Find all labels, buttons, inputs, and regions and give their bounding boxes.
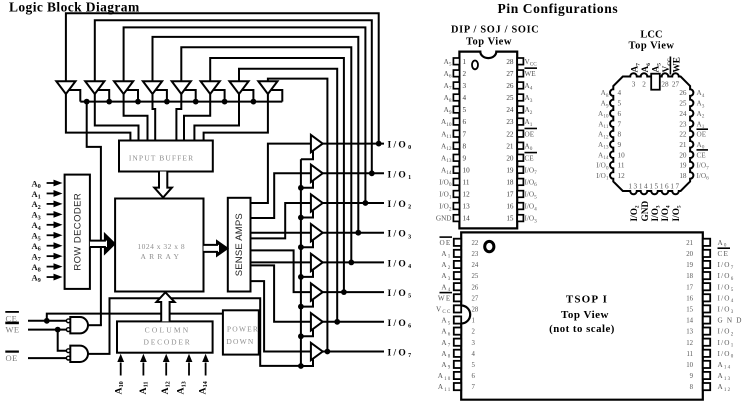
inverter bubble G1 input b [66,328,70,332]
wire sense amp out 5 to output buffer [251,250,311,292]
arrow COLUMN DECODER to ARRAY [156,292,174,321]
wire enable tap output buffer 8 [301,359,313,366]
node junction I/O1 feedback tap [369,170,375,176]
wire address input A10 column [120,363,122,376]
wire G1 output [88,324,102,326]
svg-text:1: 1 [472,318,475,325]
node junction output enable bus 7 [298,333,304,339]
svg-text:8: 8 [690,384,694,391]
wire enable tap output buffer 5 [301,270,313,277]
wire data D4 from buffer U5 into INPUT BUFFER [176,94,181,142]
wire enable tap of buffer U7 [242,90,254,102]
svg-text:12: 12 [686,340,693,347]
svg-text:21: 21 [506,142,514,150]
svg-text:24: 24 [679,110,687,118]
wire sense amp out 0 to output buffer [251,144,311,203]
wire WE enable from gate G1 to input-buffer bus [87,102,101,326]
node junction I/O6 feedback tap [334,319,340,325]
svg-text:15: 15 [686,307,693,314]
wire enable tap of buffer U2 [97,90,109,102]
arrowhead A2 [54,201,63,208]
pin 18 DIP [517,179,523,186]
svg-text:22: 22 [679,131,687,139]
svg-text:OE: OE [6,353,18,363]
svg-text:DOWN: DOWN [226,337,254,346]
wire I/O4 output line [323,261,384,263]
svg-text:11: 11 [618,162,625,170]
svg-text:15: 15 [649,183,659,191]
node junction enable bus / buffer U4 [164,99,170,105]
svg-text:WE: WE [525,70,537,78]
svg-text:INPUT BUFFER: INPUT BUFFER [129,154,194,163]
node junction output enable bus 4 [298,244,304,250]
svg-text:LCC: LCC [640,30,662,41]
package TSOP body with pin1 notch [461,232,703,399]
arrow ARRAY to SENSE AMPS [204,241,228,255]
svg-text:23: 23 [679,120,687,128]
svg-text:4: 4 [472,351,476,358]
pin 15 DIP [517,215,523,222]
pin 11 DIP [453,179,459,186]
svg-text:4: 4 [618,89,622,97]
svg-text:23: 23 [506,118,514,126]
output buffer Q8 (triangle) [311,343,323,360]
inverter bubble G1 input a [66,319,70,323]
svg-text:14: 14 [463,215,471,223]
pin 7 DIP [453,130,459,137]
svg-text:21: 21 [679,141,687,149]
block INPUT BUFFER [119,141,213,172]
svg-text:GND: GND [641,201,651,222]
svg-text:9: 9 [463,154,467,162]
svg-text:SENSE AMPS: SENSE AMPS [234,213,245,276]
svg-text:28: 28 [472,307,479,314]
node junction I/O3 feedback tap [355,230,361,236]
svg-text:WE: WE [6,325,20,335]
arrowhead A13 [186,354,193,362]
svg-text:7: 7 [472,384,476,391]
svg-text:POWER: POWER [227,325,259,334]
wire I/O3 output line [323,232,384,234]
input data buffer U1 (triangle) [56,81,75,94]
arrowhead A9 [54,274,63,281]
svg-text:9: 9 [618,141,622,149]
package DIP body [459,52,517,229]
wire data D5 from buffer U6 into INPUT BUFFER [184,94,210,142]
pin 13 DIP [453,203,459,210]
label CE with overline [5,311,19,313]
wire I/O4 feedback to input buffer 5 [181,47,351,262]
svg-text:ARRAY: ARRAY [141,252,183,261]
svg-text:CE: CE [525,154,535,162]
wire enable tap of buffer U4 [155,90,167,102]
svg-text:CE: CE [697,151,707,159]
svg-text:DECODER: DECODER [143,338,191,347]
arrowhead A3 [54,211,63,218]
wire I/O0 feedback to input buffer 1 [66,13,379,143]
pin 1 DIP [453,58,459,65]
wire enable tap output buffer 4 [301,240,313,247]
gate G1 AND (CE,WE inputs inverted) [70,317,88,333]
wire I/O3 feedback to input buffer 4 [153,37,359,233]
pin 26 DIP [517,82,523,89]
arrowhead A7 [54,253,63,260]
svg-text:27: 27 [472,295,479,302]
arrowhead A4 [54,221,63,228]
wire I/O0 output line [323,143,384,145]
pin 21 DIP [517,142,523,149]
svg-text:OE: OE [525,130,535,138]
svg-text:25: 25 [679,100,687,108]
arrowhead A5 [54,232,63,239]
wire enable tap output buffer 1 [301,151,313,159]
svg-text:26: 26 [679,89,687,97]
wire address input A1 [47,192,55,194]
pin 28 TSOP left [454,305,461,312]
output buffer Q5 (triangle) [311,254,323,271]
svg-text:9: 9 [690,373,694,380]
svg-text:22: 22 [506,130,514,138]
wire data D6 from buffer U7 into INPUT BUFFER [194,94,239,142]
wire I/O1 output line [323,172,384,174]
svg-text:11: 11 [686,351,693,358]
pin1 index mark DIP [472,61,478,70]
pin 6 DIP [453,118,459,125]
svg-text:GND: GND [436,215,452,223]
pin 8 DIP [453,142,459,149]
pin 20 TSOP right [703,250,710,257]
node junction output enable bus 3 [298,215,304,221]
output buffer Q7 (triangle) [311,313,323,330]
node junction output enable bus 6 [298,304,304,310]
svg-text:19: 19 [686,262,693,269]
pin 17 DIP [517,191,523,198]
svg-text:6: 6 [472,373,476,380]
wire address input A0 [47,182,55,184]
node junction WE [55,327,61,333]
svg-text:26: 26 [472,284,479,291]
arrow ROW DECODER to ARRAY [90,234,115,253]
svg-text:20: 20 [506,154,514,162]
node junction enable bus / buffer U5 [193,99,199,105]
pin 3 DIP [453,82,459,89]
svg-text:7: 7 [618,120,622,128]
pin 18 TSOP right [703,272,710,279]
svg-text:3: 3 [632,80,636,88]
svg-text:OE: OE [440,239,452,247]
svg-text:12: 12 [463,191,471,199]
input data buffer U4 (triangle) [143,81,162,94]
svg-text:13: 13 [628,183,638,191]
svg-text:8: 8 [618,131,622,139]
svg-text:18: 18 [686,273,693,280]
pin 2 DIP [453,70,459,77]
pin 24 DIP [517,106,523,113]
svg-text:12: 12 [618,172,626,180]
label WE with overline [5,322,19,325]
svg-text:3: 3 [472,340,476,347]
pin 27 DIP [517,70,523,77]
pin 4 TSOP left [454,350,461,357]
pin 15 TSOP right [703,305,710,312]
node junction I/O4 feedback tap [348,260,354,266]
arrowhead A10 [117,354,124,362]
svg-text:17: 17 [506,191,514,199]
wire sense amp out 4 to output buffer [251,261,311,263]
input data buffer U7 (triangle) [229,81,248,94]
svg-text:5: 5 [618,100,622,108]
svg-text:ROW DECODER: ROW DECODER [72,193,83,271]
pin 13 TSOP right [703,328,710,335]
svg-text:6: 6 [618,110,622,118]
wire address input A14 column [205,363,207,376]
wire data D3 from buffer U4 into INPUT BUFFER [153,94,156,142]
pin 27 TSOP left [454,294,461,301]
svg-text:15: 15 [506,215,514,223]
arrowhead A0 [54,180,63,187]
svg-text:Pin Configurations: Pin Configurations [498,1,619,16]
pin 8 TSOP right [703,383,710,390]
svg-text:24: 24 [472,262,479,269]
pin 22 DIP [517,130,523,137]
arrow INPUT BUFFER to ARRAY [154,172,172,198]
wire I/O1 feedback to input buffer 2 [95,20,372,173]
input data buffer U8 (triangle) [258,81,277,94]
pin 25 TSOP left [454,272,461,279]
index dot TSOP [485,241,494,251]
node junction output enable bus 5 [298,274,304,280]
wire enable tap output buffer 7 [301,330,313,337]
input data buffer U3 (triangle) [114,81,133,94]
wire output-enable bus [300,159,302,366]
pin 24 TSOP left [454,261,461,268]
wire CE branch to POWER DOWN [47,314,224,321]
svg-text:24: 24 [506,106,514,114]
svg-text:10: 10 [463,166,471,174]
pin 14 TSOP right [703,316,710,323]
wire WE input [28,329,67,331]
svg-text:G N D: G N D [718,317,743,325]
svg-text:10: 10 [618,151,626,159]
svg-text:Top View: Top View [466,37,512,48]
wire sense amp out 1 to output buffer [251,173,311,218]
wire I/O7 output line [323,351,384,353]
svg-text:OE: OE [697,131,707,139]
pin 3 TSOP left [454,339,461,346]
wire enable tap of buffer U6 [213,90,225,102]
pin 16 TSOP right [703,294,710,301]
svg-text:1: 1 [463,58,467,66]
pin 25 DIP [517,94,523,101]
wire enable tap of buffer U3 [126,90,138,102]
wire address input A6 [47,245,55,247]
svg-text:19: 19 [506,166,514,174]
node junction enable bus / buffer U7 [251,99,257,105]
wire I/O5 output line [323,291,384,293]
gate G2 AND (WE,OE inputs inverted) [70,346,88,362]
svg-text:21: 21 [686,240,693,247]
pin1 indicator notch LCC [651,74,660,90]
svg-text:2: 2 [472,329,476,336]
output buffer Q3 (triangle) [311,194,323,211]
output buffer Q6 (triangle) [311,283,323,300]
wire sense amp out 2 to output buffer [251,203,311,238]
svg-text:6: 6 [463,118,467,126]
wire data D0 from buffer U1 into INPUT BUFFER [66,94,130,142]
pin 19 TSOP right [703,261,710,268]
pin 2 TSOP left [454,328,461,335]
wire address input A7 [47,255,55,257]
svg-text:18: 18 [506,179,514,187]
block ARRAY 1024x32x8 [115,199,203,292]
svg-text:26: 26 [506,82,514,90]
pin 16 DIP [517,203,523,210]
pin 28 DIP [517,58,523,65]
pin 19 DIP [517,167,523,174]
wire enable tap of buffer U8 [271,90,283,102]
node junction output enable bus 2 [298,185,304,191]
node junction CE [44,318,50,324]
pin 12 TSOP right [703,339,710,346]
package LCC body outline with pin bumps [610,73,693,194]
input data buffer U6 (triangle) [201,81,220,94]
wire enable tap output buffer 2 [301,181,313,188]
pin 22 TSOP left [454,239,461,246]
pin 23 TSOP left [454,250,461,257]
output buffer Q4 (triangle) [311,224,323,241]
output buffer Q1 (triangle) [311,135,323,152]
svg-text:14: 14 [686,318,693,325]
svg-text:8: 8 [463,142,467,150]
wire address input A13 column [188,363,190,376]
pin 21 TSOP right [703,239,710,246]
label OE with overline [5,351,19,353]
svg-text:22: 22 [472,240,479,247]
svg-text:WE: WE [673,57,683,73]
pin 12 DIP [453,191,459,198]
wire data D1 from buffer U2 into INPUT BUFFER [95,94,139,142]
pin 26 TSOP left [454,283,461,290]
wire I/O6 feedback to input buffer 7 [239,69,337,322]
node junction enable bus / buffer U6 [222,99,228,105]
input data buffer U5 (triangle) [172,81,191,94]
wire I/O7 feedback to input buffer 8 [268,79,328,352]
node junction output enable bus 8 [298,363,304,369]
wire data D2 from buffer U3 into INPUT BUFFER [124,94,148,142]
arrowhead A12 [163,354,170,362]
arrowhead A1 [54,190,63,197]
svg-text:14: 14 [639,183,649,191]
wire CE input [28,320,67,322]
svg-text:7: 7 [463,130,467,138]
input data buffer U2 (triangle) [85,81,104,94]
wire data D7 from buffer U8 into INPUT BUFFER [204,94,268,142]
pin 17 TSOP right [703,283,710,290]
pin 20 DIP [517,154,523,161]
wire I/O2 feedback to input buffer 3 [124,27,366,203]
svg-text:28: 28 [506,58,514,66]
svg-text:TSOP I: TSOP I [566,294,608,306]
svg-text:11: 11 [463,179,470,187]
block SENSE AMPS [228,198,251,292]
output buffer Q2 (triangle) [311,165,323,182]
svg-text:17: 17 [686,284,693,291]
pin 9 DIP [453,154,459,161]
svg-text:27: 27 [506,70,514,78]
wire I/O2 output line [323,202,384,204]
svg-text:16: 16 [506,203,514,211]
svg-text:16: 16 [660,183,670,191]
svg-text:WE: WE [438,294,452,302]
pin 14 DIP [453,215,459,222]
svg-text:2: 2 [463,70,467,78]
svg-text:16: 16 [686,295,693,302]
wire I/O6 output line [323,321,384,323]
svg-text:23: 23 [472,251,479,258]
wire write-enable bus for input buffers [80,101,282,103]
svg-text:DIP / SOJ / SOIC: DIP / SOJ / SOIC [451,25,539,36]
wire address input A3 [47,213,55,215]
wire address input A12 column [165,363,167,376]
svg-text:Top View: Top View [629,41,675,52]
svg-text:20: 20 [686,251,693,258]
pin 5 DIP [453,106,459,113]
pin 10 DIP [453,167,459,174]
wire WE branch to gate G2 [58,330,67,351]
pin 6 TSOP left [454,372,461,379]
svg-text:13: 13 [686,329,693,336]
wire sense amp out 7 to output buffer [251,281,311,351]
svg-text:19: 19 [679,162,687,170]
svg-text:13: 13 [463,203,471,211]
wire I/O5 feedback to input buffer 6 [210,58,344,292]
svg-text:2: 2 [642,80,646,88]
svg-text:10: 10 [686,362,693,369]
arrowhead A11 [140,354,147,362]
svg-text:3: 3 [463,82,467,90]
svg-text:(not to scale): (not to scale) [549,323,615,335]
pin 23 DIP [517,118,523,125]
block ROW DECODER [65,175,90,289]
pin 7 TSOP left [454,383,461,390]
pin 5 TSOP left [454,361,461,368]
svg-text:COLUMN: COLUMN [145,325,191,334]
wire enable tap of buffer U1 [69,90,81,102]
node junction I/O0 feedback tap [376,141,382,147]
node WE bus tap junction [84,99,90,105]
arrowhead A14 [202,354,209,362]
wire address input A2 [47,203,55,205]
svg-text:25: 25 [506,94,514,102]
inverter bubble G2 input a [66,349,70,353]
svg-text:1024 x 32 x 8: 1024 x 32 x 8 [137,242,185,251]
pin 11 TSOP right [703,350,710,357]
wire sense amp out 3 to output buffer [251,232,311,234]
svg-text:28: 28 [661,80,669,88]
svg-text:Top View: Top View [561,309,609,321]
wire OE enable from gate G2 to output-buffer bus [88,298,301,366]
svg-text:17: 17 [670,183,680,191]
node junction I/O5 feedback tap [341,289,347,295]
svg-text:27: 27 [672,80,680,88]
pin 10 TSOP right [703,361,710,368]
wire address input A9 [47,276,55,278]
wire enable tap output buffer 3 [301,211,313,218]
wire address input A5 [47,234,55,236]
node junction enable bus / buffer U2 [106,99,112,105]
pin 9 TSOP right [703,372,710,379]
svg-text:5: 5 [463,106,467,114]
